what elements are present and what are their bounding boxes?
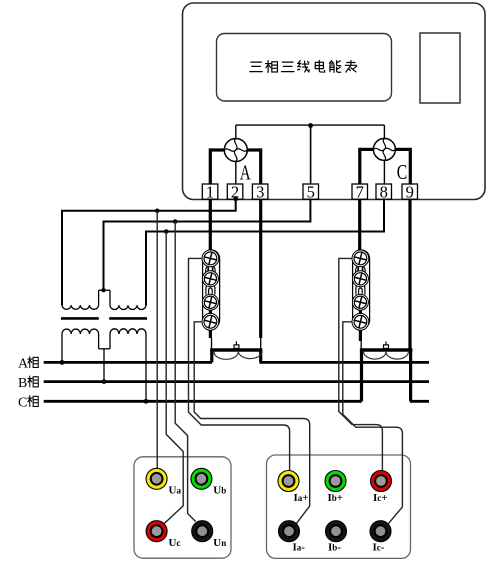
svg-text:Ib-: Ib- (328, 542, 341, 554)
node Ua tap (155, 209, 160, 214)
phase line C (44, 400, 362, 403)
test block C screws (352, 250, 369, 330)
node Un tap (173, 219, 178, 224)
CT C neck (360, 341, 362, 350)
terminal Ub (191, 468, 212, 489)
PT core left (61, 317, 99, 320)
svg-text:Uc: Uc (169, 537, 181, 549)
CT A secondary arcs (214, 352, 262, 360)
PT secondary winding b-c (top right) (110, 232, 146, 310)
node Uc tap (164, 229, 169, 234)
terminal Ic+ (371, 471, 392, 492)
svg-text:A: A (240, 161, 252, 184)
wire Un drop (175, 222, 195, 522)
wire common down to terminal 5 (310, 125, 312, 184)
wire test block C top screw to Ic+ (339, 258, 383, 470)
test block C U-link (356, 284, 365, 295)
CT A tap square (234, 345, 239, 349)
CT C risers to phase C (360, 350, 363, 401)
test block A U-link (206, 284, 215, 295)
CT A: lead from terminal1/test block (thick) (209, 199, 212, 250)
terminal Ia- (279, 521, 300, 542)
node PT primary on C phase (144, 399, 149, 404)
CT C secondary arcs (364, 352, 409, 359)
PT primary mid tap to B phase (103, 349, 105, 382)
wattmeter element C: coil circle (373, 138, 395, 160)
node PT primary on B phase (102, 379, 107, 384)
CT A primary plate (210, 348, 262, 351)
svg-text:9: 9 (406, 183, 414, 202)
wire Ua drop (156, 211, 158, 469)
wire test block A bottom screw to Ia- (194, 322, 310, 524)
svg-text:Ic+: Ic+ (373, 492, 388, 504)
test block A screws (202, 250, 219, 330)
terminal 9 (402, 183, 418, 202)
node PT secondary mid (101, 288, 105, 292)
CT C tap square (384, 345, 389, 349)
wattmeter element A: current bar (210, 148, 260, 151)
lead terminal9 down to CT C (thick) (408, 199, 411, 350)
wire terminal8 to PT secondary c (146, 199, 384, 305)
terminal Ic- (370, 521, 391, 542)
CT C: lead from terminal7 (thick) (358, 199, 361, 250)
terminal Uc (146, 521, 167, 542)
svg-text:A: A (18, 357, 29, 372)
wire test block C bottom screw to Ic- (343, 322, 403, 524)
element C leads to terminals 7,9 (thick) (358, 148, 361, 184)
connector box (current) (267, 455, 411, 558)
test block C (stadium) (353, 250, 370, 329)
wire Uc drop (164, 232, 183, 524)
test block A link sleeve (206, 265, 215, 276)
CT C primary plate (360, 348, 413, 351)
label A相 (18, 356, 38, 371)
label B相 (18, 376, 38, 391)
terminal Ib- (326, 521, 347, 542)
meter display window (420, 33, 460, 103)
svg-text:8: 8 (380, 183, 388, 202)
PT core right (109, 317, 147, 320)
svg-text:B: B (18, 376, 27, 391)
svg-text:5: 5 (307, 183, 315, 202)
wire terminal5 to PT secondary b (104, 199, 311, 290)
wattmeter element C: internal squiggles (373, 138, 395, 160)
svg-text:Ua: Ua (169, 485, 182, 497)
terminal Ua (146, 468, 167, 489)
svg-text:Ia-: Ia- (293, 542, 306, 554)
wire terminal2 to PT secondary a (62, 199, 236, 305)
element C voltage leads (thin) (383, 125, 385, 138)
svg-text:Ic-: Ic- (373, 542, 385, 554)
terminal 8 (376, 183, 392, 202)
wattmeter element A: internal squiggles (225, 139, 247, 162)
CT A risers to phase A (210, 350, 213, 362)
wattmeter element C: current bar (360, 148, 411, 151)
label C相 (18, 395, 38, 410)
node: common to terminal 5 (308, 123, 313, 128)
PT primary winding right (bottom) (110, 329, 146, 401)
phase line B (44, 380, 429, 383)
svg-text:7: 7 (356, 183, 364, 202)
svg-text:Ia+: Ia+ (294, 492, 309, 504)
svg-text:Ub: Ub (213, 485, 226, 497)
PT secondary winding a-b (top left) (62, 290, 99, 309)
lead terminal3 down to CT A (thick) (259, 199, 262, 338)
connector box (voltage) (134, 457, 231, 558)
phase line A (44, 361, 212, 364)
test block A through-line (209, 250, 212, 338)
test block C link sleeve (356, 265, 365, 276)
terminal 2 (227, 183, 243, 202)
terminal 5 (303, 183, 319, 202)
PT secondary bridge top (99, 289, 110, 291)
element A voltage leads (thin) (235, 125, 237, 138)
element A leads to terminals 1,3 (thick) (209, 148, 212, 184)
PT primary winding left (bottom) (62, 329, 99, 362)
svg-text:C: C (18, 396, 27, 411)
svg-text:3: 3 (256, 183, 264, 202)
svg-text:Ib+: Ib+ (328, 492, 344, 504)
CT A necks (211, 338, 213, 350)
terminal 7 (352, 183, 368, 202)
terminal Ia+ (278, 471, 299, 492)
PT primary bridge bottom (99, 348, 110, 350)
node below terminal 2 (233, 197, 238, 202)
node PT primary on A phase (60, 360, 65, 365)
terminal 1 (202, 183, 218, 202)
test block C through-line (359, 250, 362, 341)
test block A (stadium) (203, 250, 220, 329)
meter U1 outer case (183, 3, 486, 200)
terminal 3 (252, 183, 268, 202)
svg-text:Un: Un (213, 537, 226, 549)
terminal Ib+ (325, 471, 346, 492)
top voltage common wire (236, 124, 385, 126)
meter nameplate box (217, 34, 392, 102)
wattmeter element A: coil circle (224, 139, 247, 162)
svg-text:C: C (397, 161, 408, 185)
terminal Un (192, 521, 213, 542)
svg-text:1: 1 (206, 183, 214, 202)
meter nameplate text 三相三线电能表 (250, 60, 357, 72)
wire test block A top screw to Ia+ (189, 258, 290, 470)
